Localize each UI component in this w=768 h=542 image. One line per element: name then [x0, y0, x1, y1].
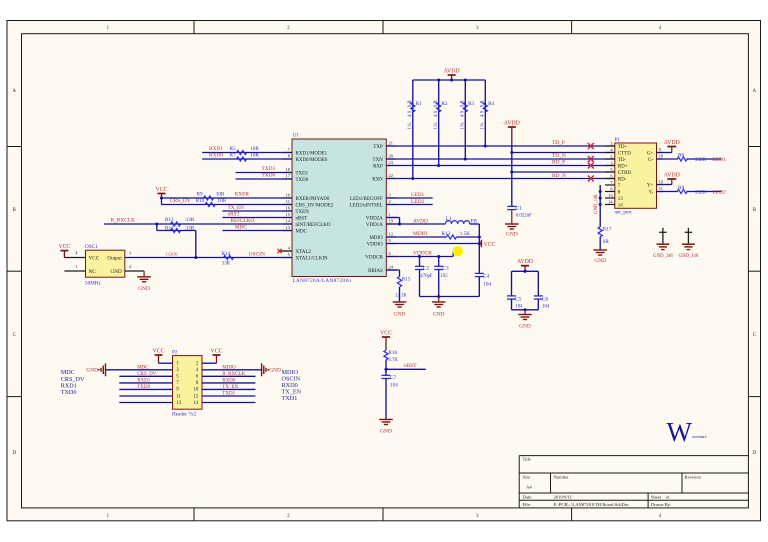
svg-text:332R: 332R: [695, 157, 707, 163]
svg-text:GND_J48: GND_J48: [679, 254, 699, 259]
svg-text:R17: R17: [603, 226, 612, 232]
svg-text:1%: 1%: [481, 122, 486, 129]
svg-text:TXD1: TXD1: [296, 171, 309, 176]
svg-text:22: 22: [389, 173, 393, 178]
svg-text:RD_N: RD_N: [552, 173, 566, 179]
svg-text:TD_P: TD_P: [552, 140, 565, 146]
svg-text:10R: 10R: [218, 198, 227, 204]
svg-text:GND: GND: [86, 368, 98, 374]
svg-text:1%: 1%: [408, 122, 413, 129]
svg-text:C2: C2: [423, 266, 429, 272]
svg-text:VDD2A: VDD2A: [366, 216, 383, 221]
svg-text:RXER: RXER: [235, 192, 250, 198]
svg-text:File:: File:: [523, 502, 531, 507]
svg-text:14: 14: [194, 401, 199, 406]
svg-text:R6: R6: [678, 153, 684, 159]
svg-text:Date:: Date:: [523, 494, 533, 499]
svg-text:TXD0: TXD0: [61, 389, 77, 396]
svg-text:E:\PCB\..\LAN8720 ETH Board.Sc: E:\PCB\..\LAN8720 ETH Board.SchDoc: [554, 502, 630, 507]
svg-text:GND: GND: [519, 324, 531, 330]
svg-text:C3: C3: [443, 266, 449, 272]
svg-text:D: D: [12, 451, 16, 456]
svg-text:VCC: VCC: [156, 187, 168, 193]
svg-text:0R: 0R: [603, 239, 610, 245]
svg-text:332R: 332R: [695, 190, 707, 196]
svg-text:21: 21: [389, 141, 393, 146]
svg-text:12: 12: [194, 394, 199, 399]
svg-text:CTTD: CTTD: [618, 151, 631, 156]
svg-text:net_port: net_port: [614, 210, 632, 216]
svg-text:VDD1A: VDD1A: [366, 223, 383, 228]
svg-text:AVDD: AVDD: [413, 219, 428, 225]
svg-text:2: 2: [389, 199, 391, 204]
svg-text:R4: R4: [488, 101, 494, 107]
svg-text:nRST: nRST: [296, 216, 308, 221]
svg-text:104: 104: [390, 383, 398, 389]
svg-text:REFCLKO: REFCLKO: [231, 218, 255, 224]
svg-text:RXD1: RXD1: [137, 379, 151, 384]
svg-text:1: 1: [389, 212, 391, 217]
svg-text:GND_J48: GND_J48: [653, 254, 673, 259]
svg-text:TXD0: TXD0: [296, 178, 309, 183]
svg-text:R9: R9: [197, 191, 203, 197]
svg-text:2: 2: [610, 154, 612, 159]
svg-text:W: W: [667, 417, 693, 447]
svg-text:Title: Title: [523, 457, 532, 462]
svg-text:VDDCR: VDDCR: [365, 255, 383, 260]
svg-text:13: 13: [176, 401, 181, 406]
svg-text:0.022uF: 0.022uF: [516, 214, 532, 219]
svg-text:RBIAS: RBIAS: [368, 269, 383, 274]
svg-text:C6: C6: [542, 297, 548, 303]
svg-text:TXP: TXP: [373, 145, 383, 150]
svg-text:12.1K: 12.1K: [395, 294, 407, 299]
svg-text:R_RXCLK: R_RXCLK: [222, 372, 245, 377]
svg-text:C1: C1: [516, 206, 522, 212]
svg-text:RXD0: RXD0: [222, 379, 236, 384]
svg-text:14: 14: [618, 203, 624, 208]
svg-text:33R: 33R: [186, 217, 195, 223]
svg-text:RD_P: RD_P: [552, 159, 565, 165]
svg-text:105: 105: [441, 274, 449, 279]
svg-text:104: 104: [542, 305, 550, 310]
svg-text:LED2: LED2: [713, 190, 726, 196]
svg-text:CTRD: CTRD: [618, 171, 632, 176]
svg-text:R7: R7: [230, 153, 236, 159]
svg-text:LED2/nINTSEL: LED2/nINTSEL: [349, 203, 382, 208]
svg-text:LAN8720A/LAN8720Ai: LAN8720A/LAN8720Ai: [293, 278, 352, 284]
svg-text:B: B: [753, 208, 756, 213]
svg-text:50MHz: 50MHz: [85, 281, 102, 287]
svg-text:470pF: 470pF: [420, 274, 433, 279]
svg-text:2019/9/11: 2019/9/11: [554, 494, 573, 499]
svg-text:VCC: VCC: [211, 349, 223, 355]
svg-text:G+: G+: [647, 151, 654, 156]
svg-text:12: 12: [389, 232, 393, 237]
svg-text:GND: GND: [138, 286, 150, 292]
svg-text:Output: Output: [107, 256, 122, 262]
svg-text:RXD1/MODE1: RXD1/MODE1: [296, 151, 328, 156]
svg-text:R13: R13: [442, 231, 451, 237]
svg-text:VDDCR: VDDCR: [413, 251, 432, 257]
svg-text:104: 104: [515, 305, 523, 310]
svg-text:RXP: RXP: [373, 164, 383, 169]
svg-text:10R: 10R: [250, 153, 259, 159]
svg-text:CLK50: CLK50: [166, 253, 177, 257]
svg-text:Size: Size: [523, 475, 531, 480]
svg-text:33R: 33R: [186, 226, 195, 232]
svg-text:AVDD: AVDD: [664, 140, 680, 146]
svg-text:R15: R15: [402, 277, 411, 283]
svg-text:R3: R3: [468, 101, 474, 107]
svg-text:R1: R1: [416, 101, 422, 107]
svg-text:VCC: VCC: [380, 331, 392, 337]
svg-text:VCC: VCC: [89, 256, 100, 262]
svg-text:10: 10: [194, 388, 199, 393]
svg-text:AVDD: AVDD: [444, 69, 460, 75]
svg-text:MDIO: MDIO: [369, 236, 383, 241]
svg-text:1%: 1%: [461, 122, 466, 129]
svg-text:49.9R: 49.9R: [481, 99, 486, 117]
svg-text:AVDD: AVDD: [504, 121, 520, 127]
svg-text:MDIO: MDIO: [413, 231, 427, 237]
svg-text:CRS_DV: CRS_DV: [170, 198, 191, 204]
svg-text:AVDD: AVDD: [664, 172, 680, 178]
svg-text:L1: L1: [446, 216, 452, 222]
svg-text:VCC: VCC: [153, 349, 165, 355]
svg-text:C: C: [13, 333, 16, 338]
svg-text:LED1/REGOFF: LED1/REGOFF: [350, 197, 383, 202]
svg-text:VCC: VCC: [58, 244, 70, 250]
svg-text:RXD1: RXD1: [209, 146, 223, 152]
svg-text:TD+: TD+: [618, 145, 628, 150]
svg-text:nRST: nRST: [228, 211, 241, 217]
svg-text:4.7K: 4.7K: [388, 358, 398, 363]
svg-text:11: 11: [286, 199, 290, 204]
svg-text:49.9R: 49.9R: [461, 99, 466, 117]
svg-text:104: 104: [483, 281, 491, 287]
svg-text:MDC: MDC: [137, 366, 149, 371]
svg-text:2: 2: [129, 264, 131, 269]
svg-text:U1: U1: [293, 133, 300, 139]
svg-text:RXN: RXN: [372, 177, 383, 182]
svg-text:TXD1: TXD1: [262, 166, 276, 172]
svg-text:nRST: nRST: [404, 363, 417, 369]
svg-text:A: A: [12, 89, 16, 94]
svg-text:RD+: RD+: [618, 164, 628, 169]
svg-text:A: A: [753, 89, 757, 94]
svg-text:G-: G-: [648, 158, 654, 163]
svg-text:R2: R2: [442, 101, 448, 107]
svg-text:C7: C7: [390, 375, 396, 381]
svg-text:LED2: LED2: [411, 199, 424, 205]
svg-text:TD_N: TD_N: [552, 153, 566, 159]
svg-text:D: D: [753, 451, 757, 456]
svg-text:49.9R: 49.9R: [434, 99, 439, 117]
svg-text:VCC: VCC: [483, 242, 495, 248]
svg-text:RXER/PHYAD0: RXER/PHYAD0: [296, 197, 330, 202]
svg-text:XTAL2: XTAL2: [296, 250, 312, 255]
svg-text:TXD1: TXD1: [282, 395, 298, 402]
svg-text:GND: GND: [269, 368, 281, 374]
svg-text:P2: P2: [172, 350, 178, 356]
svg-text:XTAL1/CLKIN: XTAL1/CLKIN: [296, 256, 328, 261]
svg-text:TX_EN: TX_EN: [222, 385, 238, 390]
svg-text:TXN: TXN: [373, 158, 384, 163]
svg-text:49.9R: 49.9R: [408, 99, 413, 117]
svg-text:CRS_DV: CRS_DV: [137, 372, 157, 377]
svg-text:R16: R16: [388, 350, 397, 356]
svg-text:NC: NC: [89, 269, 97, 275]
svg-text:10R: 10R: [216, 191, 225, 197]
svg-text:Y+: Y+: [647, 183, 654, 188]
svg-text:GND_J48: GND_J48: [594, 194, 599, 214]
svg-text:1: 1: [75, 264, 77, 269]
svg-text:aveshare: aveshare: [693, 434, 707, 439]
svg-text:B: B: [13, 208, 16, 213]
svg-text:OSCIN: OSCIN: [249, 252, 265, 258]
svg-text:1: 1: [610, 141, 612, 146]
svg-text:GND: GND: [111, 269, 122, 275]
svg-text:GND: GND: [506, 231, 518, 237]
svg-text:C: C: [753, 333, 756, 338]
svg-text:GND: GND: [433, 312, 445, 318]
svg-text:CRS_DV/MODE2: CRS_DV/MODE2: [296, 203, 334, 208]
svg-text:AVDD: AVDD: [517, 259, 533, 265]
svg-text:C5: C5: [515, 297, 521, 303]
svg-text:Sheet of: Sheet of: [651, 494, 670, 499]
svg-text:R8: R8: [678, 185, 684, 191]
svg-text:R_RXCLK: R_RXCLK: [111, 218, 136, 224]
svg-text:10R: 10R: [250, 146, 259, 152]
svg-text:1%: 1%: [434, 122, 439, 129]
svg-text:TXD0: TXD0: [137, 385, 150, 390]
svg-text:LED1: LED1: [411, 192, 424, 198]
svg-text:13: 13: [618, 197, 624, 202]
svg-text:TXD0: TXD0: [262, 173, 276, 179]
svg-text:TX_EN: TX_EN: [228, 205, 245, 211]
svg-text:RD-: RD-: [618, 177, 627, 182]
svg-text:1.5K: 1.5K: [460, 231, 470, 237]
svg-text:Header 7x2: Header 7x2: [172, 411, 196, 417]
svg-text:R5: R5: [230, 146, 236, 152]
svg-text:MDC: MDC: [235, 224, 247, 230]
svg-text:MDC: MDC: [296, 229, 308, 234]
svg-text:Y-: Y-: [649, 190, 654, 195]
svg-text:Drawn By:: Drawn By:: [651, 502, 671, 507]
svg-text:12: 12: [659, 179, 663, 184]
svg-text:GND: GND: [594, 258, 606, 264]
svg-text:VDDIO: VDDIO: [367, 242, 383, 247]
svg-text:C4: C4: [483, 273, 489, 279]
svg-text:P1: P1: [614, 137, 620, 143]
svg-text:11: 11: [659, 186, 663, 191]
svg-text:GND: GND: [380, 429, 392, 435]
svg-text:nINT/REFCLKO: nINT/REFCLKO: [296, 223, 331, 228]
svg-text:Number: Number: [554, 475, 570, 480]
svg-text:TD-: TD-: [618, 158, 627, 163]
svg-text:OSC1: OSC1: [85, 244, 98, 250]
svg-text:MDIO: MDIO: [222, 366, 236, 371]
svg-text:GND: GND: [394, 312, 406, 318]
svg-text:R10: R10: [196, 198, 205, 204]
svg-text:Revision: Revision: [685, 475, 702, 480]
svg-text:TXEN: TXEN: [296, 210, 310, 215]
svg-text:RXD0/MODE0: RXD0/MODE0: [296, 158, 328, 163]
svg-text:RXD0: RXD0: [209, 153, 223, 159]
svg-text:LED1: LED1: [713, 157, 726, 163]
svg-text:A4: A4: [526, 485, 532, 490]
svg-text:TXD1: TXD1: [222, 392, 235, 397]
svg-text:33R: 33R: [222, 262, 231, 267]
svg-text:11: 11: [176, 394, 181, 399]
